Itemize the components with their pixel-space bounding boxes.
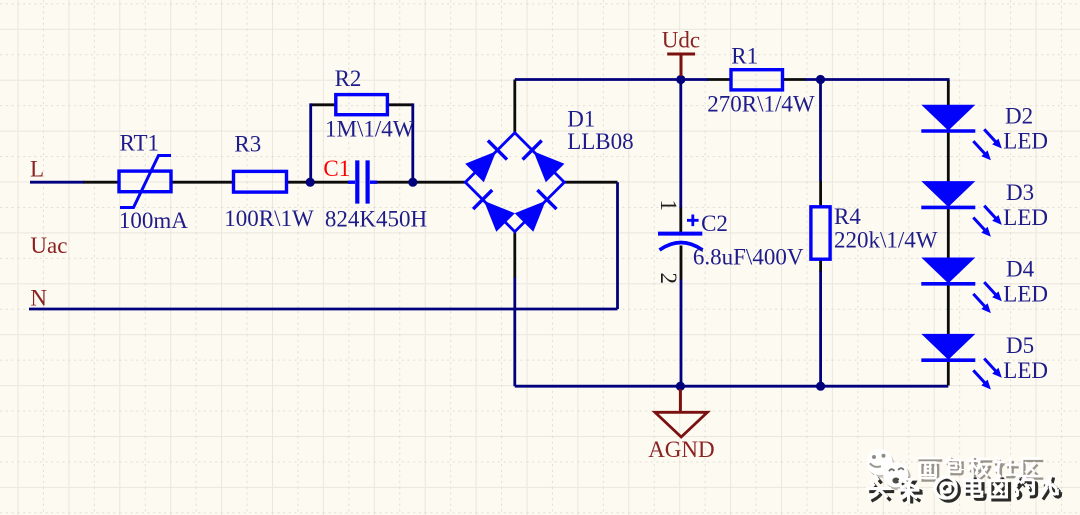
svg-text:Uac: Uac	[30, 233, 67, 258]
svg-text:LED: LED	[1003, 358, 1048, 383]
svg-text:N: N	[30, 285, 47, 310]
svg-text:D2: D2	[1005, 104, 1033, 129]
svg-text:LED: LED	[1003, 129, 1048, 154]
svg-text:2: 2	[656, 273, 681, 285]
svg-text:LED: LED	[1003, 205, 1048, 230]
svg-text:D1: D1	[567, 107, 595, 132]
svg-text:C2: C2	[701, 211, 728, 236]
svg-text:270R\1/4W: 270R\1/4W	[707, 92, 815, 117]
svg-text:R4: R4	[834, 204, 861, 229]
svg-text:220k\1/4W: 220k\1/4W	[834, 228, 938, 253]
svg-text:1: 1	[656, 200, 681, 212]
svg-text:100mA: 100mA	[119, 208, 188, 233]
svg-text:D5: D5	[1006, 333, 1034, 358]
svg-text:LLB08: LLB08	[567, 129, 633, 154]
svg-text:6.8uF\400V: 6.8uF\400V	[693, 244, 804, 269]
svg-text:100R\1W: 100R\1W	[224, 206, 314, 231]
svg-text:R1: R1	[731, 44, 758, 69]
svg-text:AGND: AGND	[648, 437, 714, 462]
svg-text:L: L	[30, 156, 44, 181]
svg-text:824K450H: 824K450H	[325, 207, 427, 232]
svg-text:LED: LED	[1003, 282, 1048, 307]
svg-text:1M\1/4W: 1M\1/4W	[325, 117, 415, 142]
svg-text:D3: D3	[1006, 180, 1034, 205]
svg-text:Udc: Udc	[662, 28, 700, 53]
svg-text:C1: C1	[323, 156, 350, 181]
svg-text:R2: R2	[335, 66, 362, 91]
svg-text:RT1: RT1	[120, 131, 160, 156]
svg-text:R3: R3	[234, 132, 261, 157]
svg-text:D4: D4	[1006, 257, 1035, 282]
